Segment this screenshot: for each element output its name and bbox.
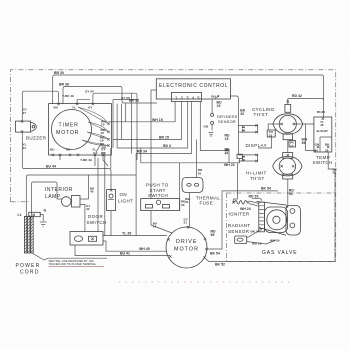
svg-text:BR 36: BR 36 bbox=[129, 99, 139, 103]
svg-text:Y-BK 49: Y-BK 49 bbox=[62, 94, 74, 98]
svg-text:45: 45 bbox=[90, 190, 94, 194]
svg-text:SENSOR: SENSOR bbox=[228, 229, 250, 234]
svg-text:LIGHT: LIGHT bbox=[118, 199, 133, 204]
svg-text:BK: BK bbox=[325, 142, 330, 146]
svg-text:L1: L1 bbox=[18, 213, 22, 217]
svg-text:GN: GN bbox=[204, 125, 209, 129]
svg-text:LAMP: LAMP bbox=[45, 194, 61, 200]
svg-text:55: 55 bbox=[198, 171, 202, 175]
svg-text:RD: RD bbox=[66, 147, 71, 151]
svg-text:46: 46 bbox=[320, 123, 324, 127]
svg-text:26: 26 bbox=[315, 148, 319, 152]
svg-text:42: 42 bbox=[86, 207, 90, 211]
svg-text:1 2 3 4 5: 1 2 3 4 5 bbox=[175, 95, 201, 100]
svg-text:BK 24: BK 24 bbox=[251, 229, 260, 233]
svg-text:CORD: CORD bbox=[20, 270, 40, 276]
svg-text:MOTOR: MOTOR bbox=[56, 130, 79, 136]
svg-text:RD: RD bbox=[101, 151, 106, 155]
svg-text:36: 36 bbox=[302, 141, 306, 145]
svg-text:BU: BU bbox=[50, 147, 55, 151]
svg-text:FUSE: FUSE bbox=[200, 201, 214, 206]
svg-text:WH 45: WH 45 bbox=[139, 247, 150, 251]
svg-text:POWER: POWER bbox=[16, 263, 41, 269]
svg-text:TIMER: TIMER bbox=[59, 123, 79, 129]
svg-text:BR 30: BR 30 bbox=[54, 71, 64, 75]
svg-text:46: 46 bbox=[322, 110, 326, 114]
svg-text:BR 15: BR 15 bbox=[159, 136, 169, 140]
svg-text:14: 14 bbox=[153, 225, 157, 229]
svg-text:SWITCH: SWITCH bbox=[87, 220, 107, 225]
svg-text:DRIVE: DRIVE bbox=[176, 239, 197, 245]
svg-text:RADIANT: RADIANT bbox=[228, 223, 251, 228]
svg-text:RD 34: RD 34 bbox=[137, 149, 147, 153]
svg-text:56: 56 bbox=[211, 233, 215, 237]
svg-text:GAS VALVE: GAS VALVE bbox=[262, 250, 297, 256]
svg-text:SWITCH: SWITCH bbox=[313, 160, 333, 165]
svg-text:GN: GN bbox=[315, 142, 320, 146]
svg-text:YL: YL bbox=[72, 106, 76, 110]
svg-text:26: 26 bbox=[325, 148, 329, 152]
svg-text:IGNITER: IGNITER bbox=[229, 211, 250, 216]
svg-text:RD 3: RD 3 bbox=[163, 144, 171, 148]
svg-text:ELECTRONIC CONTROL: ELECTRONIC CONTROL bbox=[159, 83, 228, 89]
svg-text:BU 41: BU 41 bbox=[120, 252, 130, 256]
svg-text:Y-BK 49: Y-BK 49 bbox=[80, 158, 92, 162]
svg-text:START: START bbox=[150, 188, 166, 193]
svg-text:47: 47 bbox=[23, 111, 27, 115]
svg-text:BU: BU bbox=[54, 106, 59, 110]
svg-text:RD 33: RD 33 bbox=[249, 195, 259, 199]
svg-text:YL 35: YL 35 bbox=[122, 232, 131, 236]
svg-text:GY 50: GY 50 bbox=[121, 96, 130, 100]
svg-text:31: 31 bbox=[184, 221, 188, 225]
svg-text:52: 52 bbox=[333, 171, 337, 175]
svg-text:17: 17 bbox=[290, 144, 294, 148]
svg-text:MOTOR: MOTOR bbox=[174, 246, 199, 252]
svg-text:20: 20 bbox=[240, 112, 244, 116]
svg-text:BR 36: BR 36 bbox=[59, 82, 69, 86]
svg-text:31: 31 bbox=[185, 200, 189, 204]
svg-text:GY 50: GY 50 bbox=[85, 90, 94, 94]
svg-text:RD: RD bbox=[102, 146, 107, 150]
svg-text:BK 54: BK 54 bbox=[261, 187, 271, 191]
svg-text:21: 21 bbox=[225, 151, 229, 155]
svg-text:WH 22: WH 22 bbox=[224, 163, 235, 167]
svg-text:SENSOR: SENSOR bbox=[218, 119, 236, 124]
svg-text:WH 26: WH 26 bbox=[270, 238, 280, 242]
svg-text:BK 54: BK 54 bbox=[210, 251, 220, 255]
svg-text:55: 55 bbox=[289, 192, 293, 196]
svg-text:BUZZER: BUZZER bbox=[26, 136, 47, 141]
svg-text:WH 26: WH 26 bbox=[252, 241, 262, 245]
svg-text:TRACER AND TIN PLATED TERMINAL: TRACER AND TIN PLATED TERMINAL. bbox=[49, 262, 98, 266]
svg-text:33: 33 bbox=[269, 133, 273, 137]
svg-text:44: 44 bbox=[23, 146, 27, 150]
svg-text:19: 19 bbox=[225, 137, 229, 141]
svg-text:BU 44: BU 44 bbox=[46, 164, 56, 168]
svg-text:NEUTRAL LINE IDENTIFIED BY -WH: NEUTRAL LINE IDENTIFIED BY -WH bbox=[49, 259, 94, 263]
svg-text:WH 24: WH 24 bbox=[240, 207, 251, 211]
svg-text:TH'ST: TH'ST bbox=[254, 112, 269, 117]
svg-text:ON: ON bbox=[120, 192, 128, 197]
svg-text:DISPLAY: DISPLAY bbox=[246, 143, 267, 148]
svg-text:TH'ST: TH'ST bbox=[250, 176, 265, 181]
svg-text:DOOR: DOOR bbox=[88, 214, 103, 219]
svg-text:19: 19 bbox=[217, 104, 221, 108]
svg-text:RD 42: RD 42 bbox=[292, 94, 302, 98]
svg-text:G: G bbox=[44, 208, 47, 212]
svg-text:INTERIOR: INTERIOR bbox=[45, 187, 73, 193]
svg-text:◄LIGHT: ◄LIGHT bbox=[316, 129, 328, 133]
svg-text:BK 52: BK 52 bbox=[215, 262, 225, 266]
svg-text:WH 15: WH 15 bbox=[152, 118, 163, 122]
svg-text:15: 15 bbox=[101, 123, 105, 127]
